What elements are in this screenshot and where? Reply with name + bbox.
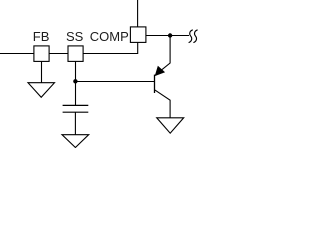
capacitor C1 top plate	[63, 104, 89, 106]
node junction on COMP wire	[168, 33, 172, 37]
wire SS pin down to capacitor	[75, 62, 77, 106]
transistor Q1 emitter arrow	[155, 66, 164, 75]
wire capacitor to ground	[74, 112, 76, 135]
pin box SS	[68, 46, 83, 62]
transistor Q1 base bar	[154, 75, 156, 93]
svg-text:FB: FB	[33, 29, 50, 44]
wire break squiggle 1	[189, 30, 193, 43]
wire collector lead of Q1	[155, 90, 170, 118]
ground at capacitor	[62, 135, 89, 148]
wire emitter lead of Q1	[155, 36, 170, 75]
capacitor C1 bottom plate	[63, 111, 89, 113]
wire FB to SS	[49, 53, 68, 55]
wire break squiggle 2	[193, 30, 197, 43]
wire base of Q1	[75, 81, 154, 83]
ground at Q1 collector	[157, 118, 184, 133]
ground at FB	[28, 83, 55, 98]
wire COMP right to break	[146, 35, 189, 37]
wire COMP top lead	[137, 0, 139, 27]
svg-text:COMP: COMP	[90, 29, 129, 44]
wire SS to COMP riser	[83, 43, 138, 54]
pin box COMP	[130, 27, 146, 43]
node junction on SS pin	[73, 79, 77, 83]
svg-text:SS: SS	[66, 29, 84, 44]
wire FB pin down	[41, 62, 43, 83]
pin box FB	[34, 46, 49, 62]
wire left rail into FB	[0, 53, 34, 55]
